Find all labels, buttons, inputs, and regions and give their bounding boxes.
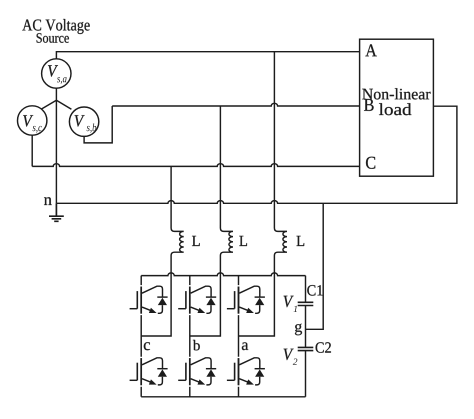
label AC Voltage Source	[22, 19, 89, 34]
wire neutral star point down to n	[55, 100, 57, 203]
IGBT Sa1 (upper, leg a) with freewheel diode	[227, 286, 265, 315]
ground symbol	[49, 203, 64, 221]
label Vs,b	[75, 115, 85, 126]
label C2	[316, 342, 331, 353]
label n	[44, 197, 52, 205]
label phase c leg	[144, 342, 150, 350]
wire phase c to leg c midpoint	[141, 258, 171, 336]
label phase a leg	[242, 342, 248, 350]
node C phase wire	[32, 164, 359, 167]
wire star point to Vs,c	[41, 100, 56, 109]
inverter leg b conductor	[189, 276, 191, 397]
label Non-linear load	[362, 88, 430, 99]
label V2	[284, 349, 294, 360]
IGBT Sc1 (upper, leg c) with freewheel diode	[130, 286, 168, 315]
label A (load terminal)	[365, 44, 376, 56]
IGBT Sb1 (upper, leg b) with freewheel diode	[178, 286, 216, 315]
wire C1 to C2 (node g)	[305, 306, 307, 348]
label Vs,c	[23, 115, 33, 126]
label L (phase c inductor)	[192, 236, 200, 246]
label L (phase a inductor)	[297, 236, 305, 246]
wire Vs,a bottom to star point	[55, 88, 57, 100]
wire neutral to node g	[306, 203, 324, 329]
label C1	[307, 285, 322, 296]
wire phase a drop from A line	[273, 52, 275, 225]
wire Vs,c to phase C line	[31, 135, 33, 166]
label B (load terminal)	[364, 99, 374, 111]
label L (phase b inductor)	[239, 236, 247, 246]
DC+ top rail	[141, 273, 305, 276]
wire top rail to C1	[305, 276, 307, 303]
inverter leg c conductor	[140, 276, 142, 397]
label V1	[284, 296, 294, 307]
wire phase a to leg a midpoint	[239, 258, 275, 336]
label phase b leg	[193, 340, 200, 351]
inverter leg a conductor	[238, 276, 240, 397]
capacitor C1	[298, 302, 314, 305]
wire phase c drop from C line	[170, 166, 172, 225]
neutral bus n and return wire to load	[56, 106, 457, 203]
node B phase wire	[112, 103, 359, 106]
label C (load terminal)	[366, 157, 375, 169]
DC- bottom rail	[141, 396, 305, 398]
inductor L (phase c)	[171, 225, 184, 258]
label Vs,a	[48, 65, 58, 76]
wire phase b to leg b midpoint	[190, 258, 221, 336]
node A phase wire (top)	[56, 52, 359, 59]
inductor L (phase a)	[274, 225, 287, 258]
node g label	[295, 324, 302, 336]
IGBT Sc2 (lower, leg c) with freewheel diode	[130, 358, 168, 387]
IGBT Sb2 (lower, leg b) with freewheel diode	[178, 358, 216, 387]
capacitor C2	[298, 347, 314, 350]
wire phase b drop from B line	[219, 106, 221, 225]
IGBT Sa2 (lower, leg a) with freewheel diode	[227, 358, 265, 387]
source Vs,a circle	[42, 59, 71, 88]
wire C2 to bottom rail	[305, 351, 307, 397]
wire Vs,b to phase B line	[84, 106, 112, 143]
source Vs,b circle	[69, 107, 98, 136]
inductor L (phase b)	[220, 225, 233, 258]
non-linear load box	[360, 39, 434, 176]
source Vs,c circle	[18, 106, 47, 135]
wire star point to Vs,b	[56, 100, 71, 109]
